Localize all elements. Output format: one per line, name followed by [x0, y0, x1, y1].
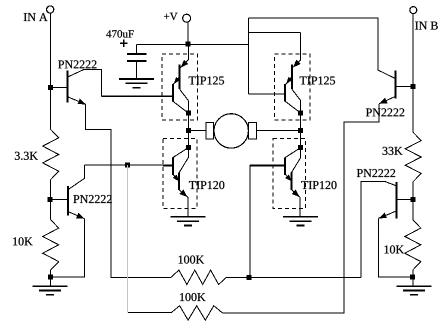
resistor R6 10K right	[385, 220, 421, 270]
wire crossover top line	[249, 17, 379, 19]
wire vertical x248.6	[248, 18, 250, 94]
wire +V rail	[137, 43, 249, 45]
node I: TIP125 R collectors	[298, 111, 303, 116]
wire 33K to node N	[412, 182, 414, 220]
node G: motor left	[186, 128, 191, 133]
wire Q2 emitter to ground node	[53, 219, 84, 277]
wire motor left	[188, 130, 206, 132]
motor M1	[206, 114, 257, 148]
dashed box TIP125 L	[162, 54, 198, 120]
capacitor C1 470uF	[106, 30, 146, 79]
node L: 100K-1 / riser junction	[246, 275, 251, 280]
node O: ground junction right	[410, 274, 415, 279]
node E: +V rail	[186, 41, 191, 46]
ground GND3 TIP120 L	[171, 217, 206, 226]
resistor R1 3.3K	[15, 129, 59, 179]
wire 3.3K to node B	[49, 180, 51, 220]
darlington U3 TIP120 left	[163, 148, 188, 217]
dashed box TIP120 R	[273, 139, 306, 209]
terminal IN A	[24, 6, 54, 21]
label U4 TIP120	[301, 181, 336, 189]
wire left column	[187, 113, 189, 148]
wire Q1 emitter to 100K-1 left	[86, 104, 171, 277]
transistor Q4 PN2222	[357, 169, 411, 218]
node D on collector line	[125, 163, 130, 168]
wire TIP120 R base riser	[249, 165, 251, 277]
ground GND5 right	[396, 286, 431, 295]
dashed box TIP125 R	[275, 54, 311, 120]
wire right column	[300, 113, 302, 148]
terminal IN B	[410, 7, 438, 30]
wire IN A down left rail	[49, 13, 51, 129]
resistor R3 100K top	[171, 256, 227, 285]
wire IN B down right rail	[412, 13, 414, 132]
transistor Q1 PN2222	[52, 60, 101, 104]
node J: motor right	[298, 128, 303, 133]
wire +V down	[187, 22, 189, 44]
wire TIP120 R base horizontal	[250, 164, 285, 166]
darlington U1 TIP125 left	[101, 44, 188, 113]
ground GND2 capacitor	[119, 79, 154, 88]
wire jog to TIP125 R emitter	[249, 32, 301, 34]
node B: Q2 base junction	[48, 197, 53, 202]
node N: Q4 base junction	[411, 197, 416, 202]
node C: ground junction left	[48, 275, 53, 280]
dashed box TIP120 L	[163, 139, 197, 209]
ground GND1 left	[33, 286, 68, 295]
node K: TIP120 R collectors	[298, 145, 303, 150]
wire Q4 emitter to ground node	[379, 218, 410, 276]
darlington U2 TIP125 right	[249, 33, 301, 113]
wire Q4 collector path	[361, 181, 396, 277]
transistor Q3 PN2222	[366, 18, 411, 116]
resistor R5 33K	[383, 132, 422, 181]
wire 100K-2 left lead	[128, 312, 171, 314]
node H: TIP120 L collectors	[186, 145, 191, 150]
wire Q1 collector to TIP125 L base	[101, 95, 173, 97]
wire 100K-1 right lead	[227, 276, 361, 278]
node F: TIP125 L collectors	[186, 111, 191, 116]
wire Q2 collector line to TIP120 L base	[84, 164, 173, 166]
light wire node D to 100K-2	[126, 165, 128, 313]
label U1 TIP125	[189, 76, 224, 84]
label U3 TIP120	[189, 181, 224, 189]
resistor R4 100K bottom	[171, 293, 222, 320]
ground GND4 TIP120 R	[283, 217, 318, 226]
terminal +V	[164, 13, 191, 22]
wire 10K to ground node	[49, 270, 51, 286]
transistor Q2 PN2222	[52, 165, 112, 219]
wire 10K-R to ground node	[412, 270, 414, 286]
wire motor right	[257, 130, 301, 132]
label U2 TIP125	[300, 76, 335, 84]
darlington U4 TIP120 right	[250, 148, 301, 217]
node A: IN A / Q1 base	[48, 85, 53, 90]
node M: IN B / Q3 base	[410, 84, 415, 89]
resistor R2 10K	[13, 220, 59, 270]
wire 100K-2 right to Q3 emitter	[222, 104, 379, 313]
wire TIP125 R base feed	[249, 93, 286, 95]
